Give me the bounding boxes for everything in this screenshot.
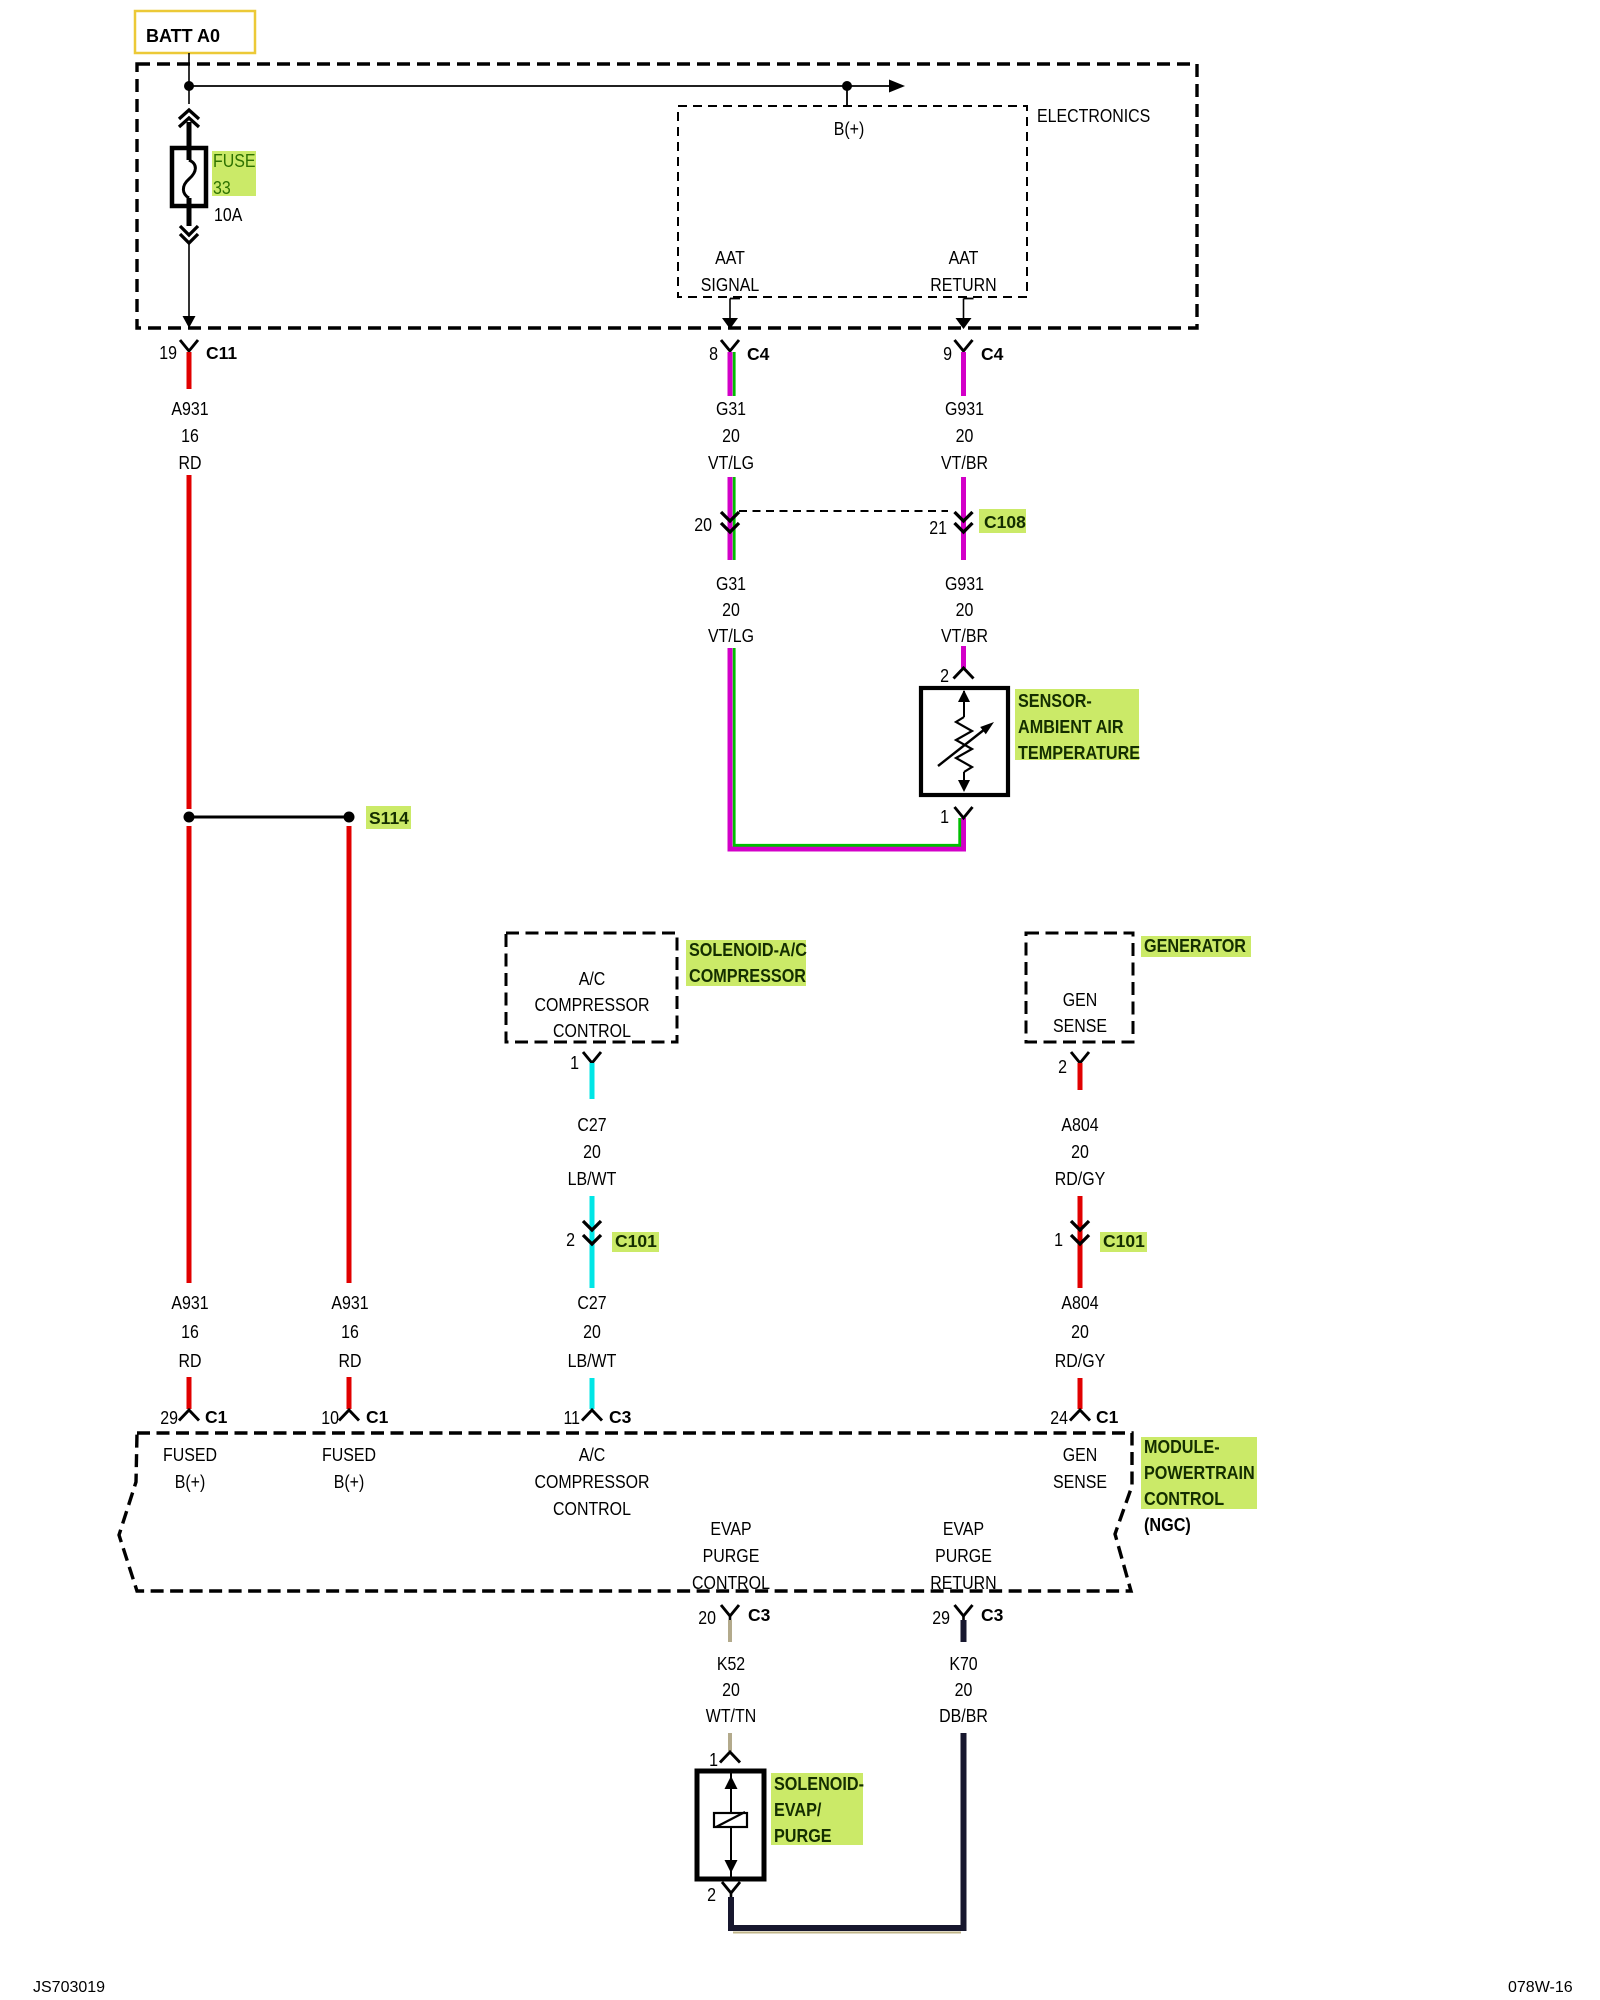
svg-text:20: 20 [583,1322,601,1342]
svg-text:A931: A931 [171,399,208,419]
svg-text:19: 19 [159,343,177,363]
svg-text:A/C: A/C [579,969,606,989]
svg-text:SENSE: SENSE [1053,1016,1107,1036]
svg-text:1: 1 [940,807,949,827]
svg-text:SOLENOID-: SOLENOID- [774,1774,864,1794]
svg-text:PURGE: PURGE [774,1826,832,1846]
svg-text:C1: C1 [1096,1407,1119,1427]
svg-text:G31: G31 [716,399,746,419]
svg-text:VT/LG: VT/LG [708,453,754,473]
svg-text:C1: C1 [205,1407,228,1427]
svg-text:LB/WT: LB/WT [568,1351,617,1371]
svg-text:FUSE: FUSE [213,151,256,171]
svg-text:20: 20 [722,1680,740,1700]
svg-text:2: 2 [566,1230,575,1250]
svg-text:G931: G931 [945,399,984,419]
svg-text:10A: 10A [214,205,242,225]
svg-text:PURGE: PURGE [703,1546,760,1566]
svg-text:20: 20 [956,426,974,446]
svg-text:20: 20 [698,1608,716,1628]
svg-text:ELECTRONICS: ELECTRONICS [1037,106,1150,126]
svg-text:PURGE: PURGE [935,1546,992,1566]
svg-text:20: 20 [955,1680,973,1700]
svg-text:10: 10 [321,1408,339,1428]
svg-text:A931: A931 [331,1293,368,1313]
svg-text:RD/GY: RD/GY [1055,1351,1106,1371]
svg-text:RETURN: RETURN [930,275,996,295]
svg-text:C4: C4 [747,344,770,364]
svg-text:EVAP: EVAP [710,1519,751,1539]
svg-text:EVAP/: EVAP/ [774,1800,821,1820]
svg-text:COMPRESSOR: COMPRESSOR [534,995,649,1015]
svg-text:RETURN: RETURN [930,1573,996,1593]
svg-text:POWERTRAIN: POWERTRAIN [1144,1463,1255,1483]
svg-text:RD: RD [179,453,202,473]
svg-text:2: 2 [1058,1057,1067,1077]
svg-text:WT/TN: WT/TN [706,1706,756,1726]
svg-text:CONTROL: CONTROL [553,1021,631,1041]
svg-text:G31: G31 [716,574,746,594]
svg-text:(NGC): (NGC) [1144,1515,1191,1535]
svg-text:16: 16 [341,1322,359,1342]
svg-text:AAT: AAT [715,248,745,268]
svg-text:FUSED: FUSED [163,1445,217,1465]
svg-text:GEN: GEN [1063,1445,1098,1465]
svg-text:C1: C1 [366,1407,389,1427]
svg-text:16: 16 [181,1322,199,1342]
svg-text:A804: A804 [1061,1115,1098,1135]
svg-text:AAT: AAT [949,248,979,268]
svg-text:C3: C3 [748,1605,771,1625]
svg-text:SOLENOID-A/C: SOLENOID-A/C [689,940,807,960]
svg-text:C3: C3 [609,1407,632,1427]
svg-text:VT/LG: VT/LG [708,626,754,646]
svg-text:CONTROL: CONTROL [692,1573,770,1593]
svg-text:CONTROL: CONTROL [1144,1489,1224,1509]
svg-text:2: 2 [940,666,949,686]
svg-text:1: 1 [570,1053,579,1073]
svg-text:LB/WT: LB/WT [568,1169,617,1189]
svg-text:078W-16: 078W-16 [1508,1979,1573,1996]
svg-text:SENSOR-: SENSOR- [1018,691,1092,711]
svg-text:VT/BR: VT/BR [941,626,988,646]
svg-text:TEMPERATURE: TEMPERATURE [1018,743,1140,763]
svg-text:VT/BR: VT/BR [941,453,988,473]
svg-text:C27: C27 [577,1293,606,1313]
svg-text:29: 29 [160,1408,178,1428]
svg-text:COMPRESSOR: COMPRESSOR [534,1472,649,1492]
svg-text:SENSE: SENSE [1053,1472,1107,1492]
svg-text:A931: A931 [171,1293,208,1313]
svg-text:C11: C11 [206,343,237,363]
svg-text:1: 1 [1054,1230,1063,1250]
svg-text:8: 8 [709,344,718,364]
svg-text:C101: C101 [615,1231,657,1251]
svg-text:21: 21 [929,518,947,538]
svg-text:C101: C101 [1103,1231,1145,1251]
svg-text:C108: C108 [984,512,1026,532]
svg-text:16: 16 [181,426,199,446]
svg-text:C27: C27 [577,1115,606,1135]
svg-text:EVAP: EVAP [943,1519,984,1539]
svg-text:DB/BR: DB/BR [939,1706,988,1726]
svg-text:20: 20 [694,515,712,535]
svg-text:K52: K52 [717,1654,745,1674]
svg-text:JS703019: JS703019 [33,1979,105,1996]
svg-text:B(+): B(+) [334,1472,365,1492]
svg-text:2: 2 [707,1885,716,1905]
svg-text:20: 20 [722,600,740,620]
svg-text:SIGNAL: SIGNAL [701,275,759,295]
svg-text:FUSED: FUSED [322,1445,376,1465]
svg-text:BATT A0: BATT A0 [146,26,220,46]
svg-text:B(+): B(+) [834,119,865,139]
svg-text:RD: RD [179,1351,202,1371]
svg-text:11: 11 [564,1408,581,1428]
svg-text:AMBIENT AIR: AMBIENT AIR [1018,717,1124,737]
svg-text:S114: S114 [369,808,409,828]
svg-text:1: 1 [709,1750,718,1770]
svg-text:29: 29 [932,1608,950,1628]
svg-text:G931: G931 [945,574,984,594]
svg-text:20: 20 [1071,1322,1089,1342]
svg-text:COMPRESSOR: COMPRESSOR [689,966,806,986]
svg-text:CONTROL: CONTROL [553,1499,631,1519]
svg-text:A/C: A/C [579,1445,606,1465]
svg-text:33: 33 [213,178,231,198]
svg-text:9: 9 [943,344,952,364]
svg-text:MODULE-: MODULE- [1144,1437,1220,1457]
svg-text:A804: A804 [1061,1293,1098,1313]
svg-text:K70: K70 [949,1654,977,1674]
svg-text:GEN: GEN [1063,990,1098,1010]
svg-text:RD: RD [339,1351,362,1371]
svg-text:RD/GY: RD/GY [1055,1169,1106,1189]
svg-text:20: 20 [583,1142,601,1162]
svg-text:C3: C3 [981,1605,1004,1625]
svg-text:GENERATOR: GENERATOR [1144,936,1246,956]
svg-text:24: 24 [1050,1408,1068,1428]
svg-text:B(+): B(+) [175,1472,206,1492]
svg-text:20: 20 [1071,1142,1089,1162]
svg-text:C4: C4 [981,344,1004,364]
svg-text:20: 20 [956,600,974,620]
svg-text:20: 20 [722,426,740,446]
